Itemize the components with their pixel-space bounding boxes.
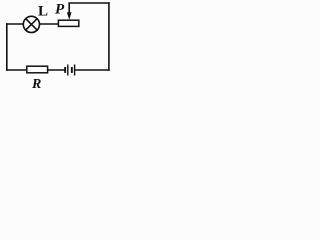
resistor R body [27,66,48,73]
wire: bottom from left corner to resistor [7,69,27,71]
wire: rheostat slider arrow stem up and right along top to top-right corner [69,3,109,13]
svg-text:L: L [38,4,48,20]
lamp L (circle with X) [23,16,39,32]
wire: top-left horizontal to lamp [7,23,23,25]
wire: left vertical from top-left corner to bottom-left corner [6,24,8,70]
wire: lamp to rheostat left terminal [40,23,58,25]
rheostat P body [58,20,78,26]
battery B (two cells) [64,65,75,76]
rheostat slider arrowhead [67,12,72,20]
wire: battery to bottom-right corner [75,69,109,71]
wire: right vertical down to bottom-right corner [108,3,110,70]
wire: resistor to battery [48,69,64,71]
svg-text:R: R [31,77,41,91]
svg-text:P: P [55,2,65,18]
